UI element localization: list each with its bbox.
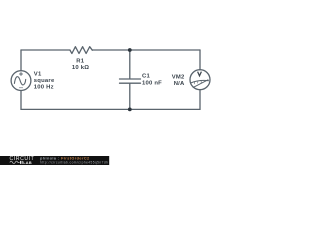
resistor R1 <box>70 47 92 54</box>
wire V1 bottom lead <box>20 91 22 110</box>
wire capacitor top lead <box>129 50 131 78</box>
svg-text:10 kΩ: 10 kΩ <box>72 65 89 71</box>
label R1 value <box>72 59 89 71</box>
label VM2 value <box>172 75 185 87</box>
wire capacitor bottom lead <box>129 84 131 110</box>
wire top-left segment <box>21 49 70 51</box>
label C1 value <box>142 74 162 87</box>
svg-text:100 nF: 100 nF <box>142 80 162 86</box>
VM2 V letter <box>198 72 202 76</box>
capacitor C1 plates <box>120 79 141 83</box>
svg-text:LAB: LAB <box>23 161 32 165</box>
wire VM2 bottom lead <box>199 90 201 110</box>
wire top-right segment <box>92 49 200 51</box>
svg-text:100 Hz: 100 Hz <box>34 84 54 90</box>
label V1 value <box>34 72 55 91</box>
VM2 meter arc <box>191 80 209 82</box>
voltage source V1 <box>11 71 31 91</box>
node junction top (C1/top wire) <box>128 48 132 52</box>
wire bottom <box>21 108 200 110</box>
V1 sine waveform <box>14 77 25 85</box>
svg-text:R1: R1 <box>76 59 84 65</box>
CircuitLab logo cap mark <box>21 161 23 164</box>
svg-text:N/A: N/A <box>174 81 185 87</box>
svg-text:square: square <box>34 78 55 84</box>
svg-text:http://circuitlab.com/c/phe455: http://circuitlab.com/c/phe455q5n7dh <box>40 160 108 164</box>
svg-text:VM2: VM2 <box>172 75 185 81</box>
wire right vertical (VM2 top lead) <box>199 50 201 70</box>
VM2 meter needle <box>193 80 208 88</box>
svg-text:C1: C1 <box>142 74 150 80</box>
VM2 meter ticks <box>194 81 201 84</box>
V1 plus sign <box>20 73 23 76</box>
node junction bottom (C1/bottom wire) <box>128 108 132 112</box>
watermark bar <box>0 156 109 165</box>
svg-text:V1: V1 <box>34 72 42 78</box>
wire left vertical (V1 top lead) <box>20 50 22 71</box>
CircuitLab logo wave <box>10 161 20 164</box>
voltmeter VM2 <box>190 70 210 90</box>
V1 minus sign <box>19 87 22 89</box>
